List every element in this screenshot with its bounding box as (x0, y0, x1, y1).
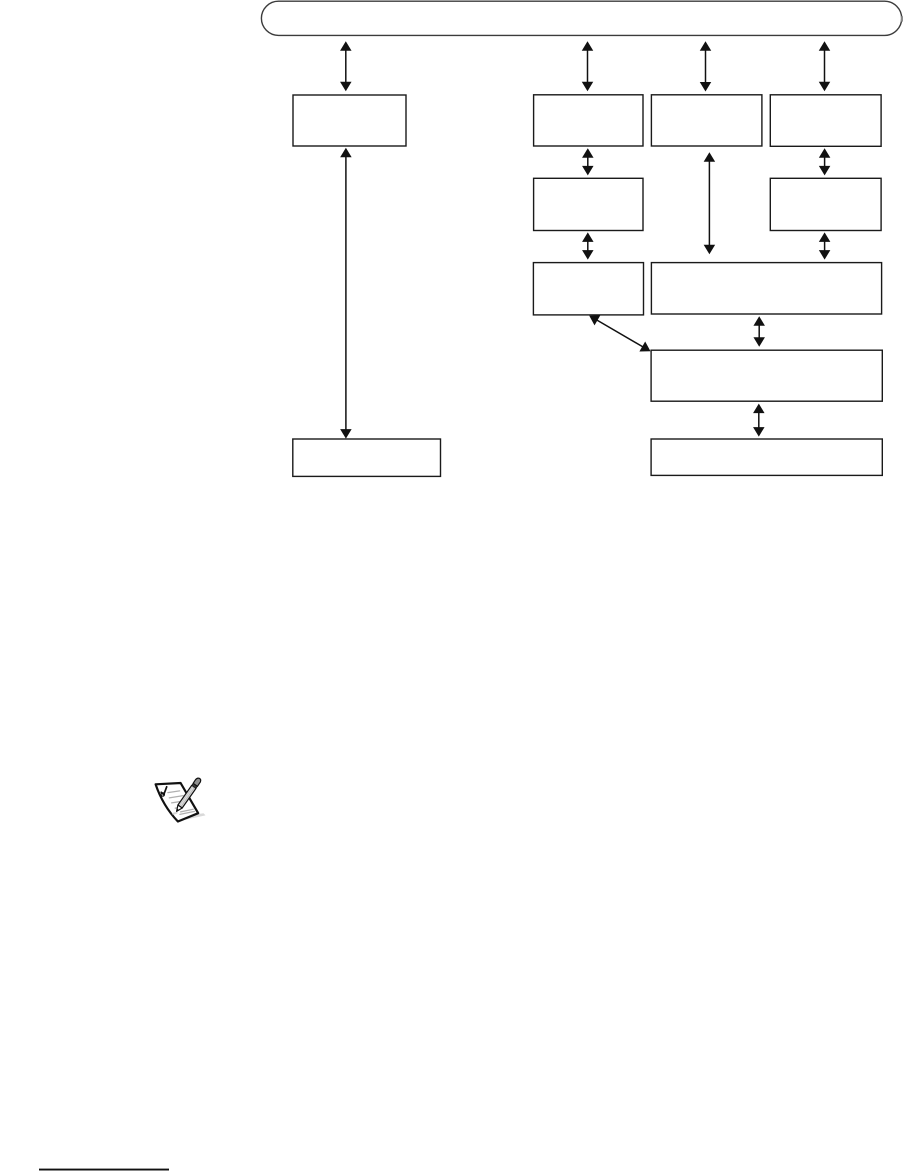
arrow: bus to box D1 (819, 41, 831, 91)
box B2 (row 2) (534, 178, 643, 230)
box I (row 4 wide) (651, 350, 882, 401)
note icon: checkmark (161, 787, 167, 795)
box C1 (row 1) (651, 95, 762, 146)
bus stub at right page edge (901, 16, 903, 21)
footer rule (39, 1169, 169, 1171)
note icon: pencil point (177, 809, 180, 812)
arrow: box B1 to box B2 (582, 148, 594, 175)
system bus (rounded bar) (261, 1, 901, 35)
note icon: pencil body (178, 785, 196, 808)
box A1 (row 1 left) (293, 95, 406, 146)
box B1 (row 1) (534, 95, 643, 146)
note icon: checkmark loop (161, 793, 164, 796)
box B3 (row 3) (533, 263, 643, 315)
box K (row 5 wide) (651, 439, 882, 475)
note icon: pencil tip shadow (172, 812, 178, 816)
arrow: bus to box B1 (582, 41, 594, 91)
note icon: ruled lines (168, 791, 195, 815)
box D2 (row 2 right) (770, 178, 881, 230)
note icon: pencil facets (181, 787, 195, 807)
arrow: bus to box C1 (700, 41, 712, 91)
arrow: box C1 to box H long (704, 152, 716, 254)
note icon: paper sheet (156, 783, 199, 822)
arrow: box B2 to box B3 (582, 232, 594, 259)
arrow: box D2 to box H (819, 232, 831, 259)
arrow: box A1 to box A2 long (340, 148, 352, 439)
arrow: box I to box K (753, 404, 765, 437)
note icon: pencil tip cone (177, 805, 183, 811)
note icon: pencil eraser (193, 778, 201, 786)
arrow: box B3 to box I diagonal (589, 315, 650, 351)
note icon: pencil ferrule (192, 783, 198, 788)
arrow: box H to box I (753, 316, 765, 347)
note icon (paper with checkmark and pencil) (156, 778, 206, 821)
box A2 (row 5 left) (293, 439, 441, 476)
arrow: box D1 to box D2 (819, 148, 831, 175)
box H (row 3 wide) (651, 263, 881, 314)
box D1 (row 1 right) (770, 95, 881, 147)
note icon: paper shadow (181, 813, 206, 819)
arrow: bus to box A1 (340, 41, 352, 91)
